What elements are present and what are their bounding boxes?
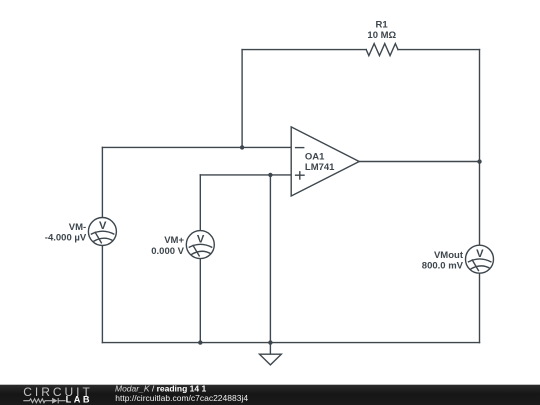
resistor R1 — [366, 44, 398, 56]
wire right vertical from top to VMout top — [479, 50, 481, 246]
wire op-amp output horizontal — [359, 161, 479, 163]
node junction output — [477, 159, 481, 163]
svg-text:http://circuitlab.com/c7cac224: http://circuitlab.com/c7cac224883j4 — [115, 393, 248, 403]
node junction ground/noninverting — [268, 173, 272, 177]
voltmeter VM+ — [186, 231, 214, 259]
wire VMout vertical lower — [479, 273, 481, 342]
voltmeter VMout — [466, 245, 494, 273]
op-amp OA1 — [291, 127, 359, 196]
svg-text:LM741: LM741 — [305, 162, 335, 173]
op-amp plus input symbol — [295, 171, 305, 180]
svg-text:V: V — [197, 233, 205, 245]
svg-text:0.000 V: 0.000 V — [151, 246, 184, 257]
wire VM- vertical upper — [101, 147, 103, 217]
wire ground vertical — [269, 175, 271, 343]
svg-text:V: V — [476, 248, 484, 260]
svg-text:V: V — [99, 220, 107, 232]
wire inverting input horizontal — [102, 146, 291, 148]
svg-text:R1: R1 — [376, 19, 389, 30]
wire VM+ vertical lower — [199, 259, 201, 343]
svg-text:LAB: LAB — [66, 395, 92, 405]
node junction VM+ bottom — [198, 340, 202, 344]
wire noninverting input horizontal — [200, 174, 291, 176]
svg-text:VMout: VMout — [434, 250, 464, 261]
footer bar — [0, 385, 540, 405]
svg-text:-4.000 µV: -4.000 µV — [45, 233, 87, 244]
ground — [260, 343, 282, 365]
svg-text:800.0 mV: 800.0 mV — [422, 260, 464, 271]
svg-text:VM+: VM+ — [164, 235, 184, 246]
wire top feedback horizontal right of R1 — [398, 49, 480, 51]
svg-text:10 MΩ: 10 MΩ — [367, 30, 396, 41]
logo schematic: resistor + diode — [23, 398, 65, 403]
wire top feedback horizontal left of R1 — [242, 49, 366, 51]
svg-text:OA1: OA1 — [305, 152, 325, 163]
node junction ground bottom — [268, 340, 272, 344]
node junction feedback/inverting — [240, 145, 244, 149]
svg-text:VM-: VM- — [69, 222, 86, 233]
wire feedback vertical left — [241, 50, 243, 148]
wire VM+ vertical upper — [199, 175, 201, 231]
op-amp minus input symbol — [295, 147, 305, 149]
wire VM- vertical lower — [101, 246, 103, 343]
voltmeter VM- — [88, 218, 116, 246]
wire bottom horizontal — [102, 342, 479, 344]
